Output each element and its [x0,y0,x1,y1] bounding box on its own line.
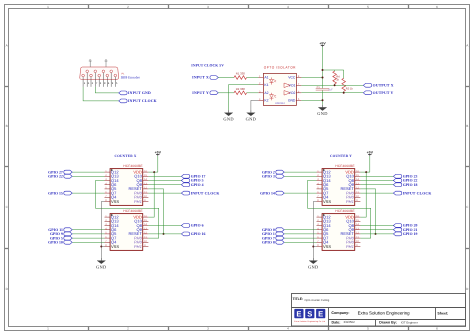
svg-text:GPIO 14: GPIO 14 [260,191,275,195]
svg-text:5: 5 [367,327,369,331]
svg-text:HCF4060BE: HCF4060BE [123,209,143,213]
svg-text:PH1: PH1 [134,199,142,204]
svg-text:1: 1 [47,5,49,9]
svg-text:INPUT X: INPUT X [192,76,209,80]
svg-text:VSS: VSS [323,244,331,249]
svg-text:Extra Solution Engineering: Extra Solution Engineering [358,310,411,315]
svg-text:INPUT CLOCK: INPUT CLOCK [128,99,157,103]
svg-text:GND: GND [288,99,296,103]
svg-text:R3 1k: R3 1k [346,87,354,90]
svg-text:HSR312: HSR312 [275,102,285,105]
svg-text:COUNTER Y: COUNTER Y [330,154,352,158]
svg-text:IOT Engineer: IOT Engineer [401,320,418,324]
svg-text:B: B [6,124,8,128]
svg-text:Opto counter Cutting: Opto counter Cutting [305,299,330,302]
svg-text:INPUT CLOCK: INPUT CLOCK [191,191,220,195]
svg-text:PH1: PH1 [134,244,142,249]
svg-text:Date:: Date: [332,321,341,325]
svg-text:GPIO 10: GPIO 10 [48,240,63,244]
svg-text:VCC: VCC [288,76,296,80]
svg-text:1uF: 1uF [328,89,333,92]
svg-text:GND: GND [96,264,107,269]
svg-text:E: E [296,310,301,319]
svg-text:6: 6 [436,327,438,331]
svg-text:OUTPUT Y: OUTPUT Y [373,91,394,95]
svg-text:GPIO 18: GPIO 18 [403,183,418,187]
svg-text:INPUT CLOCK 5V: INPUT CLOCK 5V [191,63,224,67]
svg-text:Sheet:: Sheet: [437,312,448,316]
svg-text:GPIO 8: GPIO 8 [262,240,275,244]
svg-text:4: 4 [287,327,289,331]
svg-text:VSS: VSS [323,199,331,204]
svg-text:Drawn By:: Drawn By: [379,321,397,325]
svg-text:GND: GND [246,117,257,122]
svg-text:K2: K2 [264,99,268,103]
svg-text:GPIO 4: GPIO 4 [191,183,204,187]
svg-text:5: 5 [367,5,369,9]
svg-text:GND: GND [317,111,328,116]
svg-text:4: 4 [287,5,289,9]
svg-text:VSS: VSS [111,199,119,204]
svg-text:3: 3 [207,5,209,9]
svg-text:GPIO 3: GPIO 3 [262,174,275,178]
svg-text:OPTO ISOLATOR: OPTO ISOLATOR [264,65,296,69]
svg-text:R2 330: R2 330 [236,87,245,91]
svg-text:GPIO 15: GPIO 15 [48,191,63,195]
svg-text:INPUT GND: INPUT GND [128,91,151,95]
svg-text:R1 330: R1 330 [236,72,245,76]
svg-text:3: 3 [207,327,209,331]
svg-text:K1: K1 [264,83,268,87]
svg-text:COUNTER X: COUNTER X [115,154,137,158]
svg-text:PH1: PH1 [346,199,354,204]
svg-text:GPIO 19: GPIO 19 [403,232,418,236]
svg-text:DB9 Encoder: DB9 Encoder [121,75,141,79]
svg-text:PH1: PH1 [346,244,354,249]
svg-text:A1: A1 [264,76,268,80]
svg-text:B: B [466,124,468,128]
svg-text:HCF4060BE: HCF4060BE [335,209,355,213]
svg-text:E: E [318,310,323,319]
svg-text:GND: GND [308,264,319,269]
svg-text:2: 2 [127,5,129,9]
svg-text:GPIO 22: GPIO 22 [48,174,63,178]
svg-text:6: 6 [436,5,438,9]
svg-text:A2: A2 [264,91,268,95]
svg-text:VSS: VSS [111,244,119,249]
svg-text:TITLE:: TITLE: [293,297,304,301]
svg-text:INPUT CLOCK: INPUT CLOCK [403,191,432,195]
svg-text:3/9/2562: 3/9/2562 [344,320,356,324]
svg-text:GPIO 16: GPIO 16 [191,232,206,236]
svg-text:OUTPUT X: OUTPUT X [373,83,394,87]
svg-text:S: S [307,310,312,319]
svg-text:HCF4060BE: HCF4060BE [335,164,355,168]
svg-text:GND: GND [223,117,234,122]
svg-text:INPUT Y: INPUT Y [192,91,209,95]
svg-text:2: 2 [127,327,129,331]
svg-text:1: 1 [47,327,49,331]
svg-text:GPIO 6: GPIO 6 [191,224,204,228]
svg-text:Extra Solution Engineering Co.: Extra Solution Engineering Co.,Ltd [294,320,325,323]
svg-text:HCF4060BE: HCF4060BE [123,164,143,168]
svg-text:Company:: Company: [331,311,349,315]
